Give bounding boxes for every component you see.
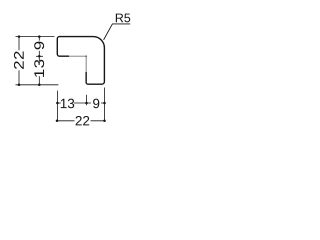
dimension line 9 / 13 vertical xyxy=(36,35,43,86)
dim text 9 (left, rotated) xyxy=(34,41,45,51)
label R5 xyxy=(116,14,130,23)
inner corner junction xyxy=(85,55,87,57)
dimension line 13 / 9 horizontal xyxy=(56,102,106,105)
extension line top-left xyxy=(16,36,55,38)
leader line for R5 xyxy=(104,24,131,40)
dim text 22 (bottom) xyxy=(75,115,91,126)
extension line bottom outer-left xyxy=(56,91,58,122)
extension line bottom-left xyxy=(16,84,59,86)
dim text 22 (left, rotated) xyxy=(13,50,24,70)
dimension line 22 horizontal xyxy=(56,120,106,123)
dimension line 22 vertical xyxy=(18,35,21,86)
dim text 13 (bottom) xyxy=(61,98,74,109)
extension line bottom right xyxy=(104,88,106,122)
extension line bottom middle xyxy=(86,95,88,106)
dim text 9 (bottom) xyxy=(91,98,101,109)
L-profile outer contour (corner cushion cross-section) xyxy=(57,37,104,85)
inner thin contour near inside corner xyxy=(69,56,86,72)
dim text 13 (left, rotated) xyxy=(34,61,45,76)
